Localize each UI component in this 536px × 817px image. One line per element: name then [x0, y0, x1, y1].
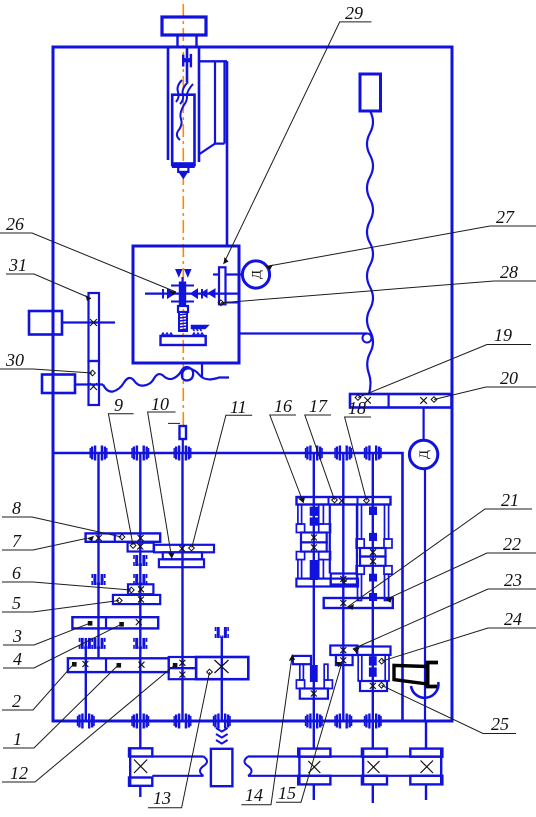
- gear 9: [128, 543, 154, 552]
- leader 31: [6, 274, 91, 299]
- worm gear B on shaft VII: [362, 749, 387, 785]
- leader 6: [2, 582, 131, 590]
- sleeve gear on shaft IV: [211, 749, 233, 786]
- leader 5: [2, 601, 119, 613]
- svg-text:24: 24: [504, 609, 522, 629]
- svg-text:19: 19: [494, 325, 512, 345]
- left gear bar (31): [89, 293, 100, 361]
- bearing on shaft II under gear 9: [134, 555, 147, 566]
- shaft Ib (x=85.8): [85, 638, 87, 721]
- svg-text:Д: Д: [249, 270, 264, 279]
- svg-text:29: 29: [345, 3, 363, 23]
- svg-text:25: 25: [491, 714, 509, 734]
- left spool walls upper: [296, 505, 330, 533]
- big gear 13: [196, 657, 248, 679]
- leader 20: [434, 387, 536, 400]
- output feed shaft segment 2: [248, 755, 442, 757]
- shaft VI (x=343.3): [342, 453, 344, 721]
- top right gear bar (19/20): [350, 394, 452, 408]
- central bevel gear cluster: [163, 282, 202, 306]
- bearing bottom wall shaft VI: [335, 714, 352, 729]
- bearing top wall shaft V: [306, 446, 323, 461]
- bearing top wall spindle: [174, 446, 191, 461]
- link from feed box to chain: [239, 332, 367, 334]
- clutch pair on horizontal shaft (right of bevel): [201, 289, 215, 298]
- double gear block 12 on spindle: [169, 657, 196, 668]
- gear bar 11 on spindle: [154, 545, 214, 553]
- centerline spindle axis (orange dash-dot): [182, 4, 184, 425]
- left spool bottom bar: [296, 579, 358, 587]
- leader 2: [2, 664, 74, 710]
- bearing bottom wall shaft VII: [365, 714, 382, 729]
- svg-text:6: 6: [12, 563, 21, 583]
- svg-text:18: 18: [348, 398, 366, 418]
- leader 3: [3, 623, 90, 645]
- spindle spline squiggle: [176, 80, 193, 106]
- wall down to feed box: [226, 61, 229, 246]
- leader 18: [345, 417, 371, 501]
- bearing bottom wall shaft IV: [214, 714, 231, 729]
- leader 12: [2, 665, 175, 782]
- coupling on spindle axis above gearbox: [180, 426, 187, 439]
- right spool walls lower: [356, 566, 392, 601]
- bearing shaft IV top: [216, 627, 229, 638]
- bearing top wall shaft VI: [335, 446, 352, 461]
- svg-text:8: 8: [12, 498, 21, 518]
- handwheel HW1: [242, 261, 269, 288]
- motor neck: [178, 35, 197, 47]
- drive motor shaft down: [424, 469, 426, 721]
- quill inner hook: [177, 105, 184, 140]
- svg-text:10: 10: [151, 394, 169, 414]
- svg-text:7: 7: [12, 531, 22, 551]
- svg-text:26: 26: [6, 214, 24, 234]
- lower-left spool block (shaft V) top bar 14: [293, 656, 311, 664]
- long gear bar 1/2: [68, 658, 169, 672]
- shaft break symbol left: [200, 757, 207, 776]
- wide bottom bar 21: [324, 598, 393, 608]
- svg-text:22: 22: [503, 534, 521, 554]
- spindle head housing walls: [167, 47, 170, 160]
- chain (wavy) to counterweight: [367, 111, 373, 394]
- lower-left spool gear: [300, 689, 328, 699]
- overload clutch on shaft IV: [216, 728, 228, 744]
- shaft I (x=98.5): [97, 453, 99, 659]
- shaft II (x=140.3): [139, 453, 141, 721]
- shaft II into worm gear: [139, 721, 141, 748]
- svg-text:28: 28: [500, 262, 518, 282]
- bearing bottom wall shaft Ib: [78, 714, 95, 729]
- bearing shaft II mid: [134, 574, 147, 585]
- leader 13: [148, 672, 210, 808]
- worm (hatched): [179, 312, 187, 331]
- bearing bottom wall shaft V: [306, 714, 323, 729]
- leader 8: [2, 517, 122, 537]
- lower-right spool walls: [358, 655, 389, 681]
- output feed shaft (drawn as band) segment 1: [152, 755, 203, 757]
- gear dogs shaft V lower: [310, 666, 317, 682]
- head side bracket: [199, 60, 227, 62]
- svg-text:27: 27: [496, 207, 515, 227]
- leader 15: [276, 662, 342, 802]
- sliding gear C on shaft VII: [360, 548, 386, 557]
- shaft V (x=313.8): [313, 453, 315, 721]
- belt coupling on spindle: [182, 55, 184, 67]
- svg-text:20: 20: [500, 368, 518, 388]
- leader 24: [382, 628, 536, 661]
- leader 25: [382, 685, 517, 733]
- gear dogs on shaft VII: [370, 507, 377, 600]
- shaft VII (x=372.8): [372, 453, 374, 721]
- sliding gear A on shaft V: [301, 533, 327, 543]
- shaft from R1: [62, 321, 115, 323]
- sliding gear D on shaft VII: [360, 557, 386, 566]
- feed gearbox top bar (16/17/18): [297, 497, 391, 505]
- shaft IV (x=221.8): [221, 637, 223, 721]
- bearing shaft II low: [134, 638, 147, 649]
- svg-text:17: 17: [309, 396, 328, 416]
- svg-text:31: 31: [8, 255, 27, 275]
- counterweight: [360, 74, 381, 111]
- leader 7: [2, 538, 87, 550]
- левая рукоятка rect R1: [29, 311, 62, 335]
- bearing top wall shaft VII: [365, 446, 382, 461]
- svg-text:5: 5: [12, 593, 21, 613]
- bearing top wall shaft II: [132, 446, 149, 461]
- chuck: [173, 163, 194, 167]
- bearing shaft I bottom: [92, 638, 105, 649]
- svg-text:16: 16: [274, 396, 292, 416]
- leader 21: [348, 509, 533, 607]
- lower-left spool walls: [296, 664, 332, 688]
- gear 5: [113, 595, 160, 604]
- leader 29: [224, 22, 372, 264]
- svg-text:1: 1: [13, 729, 22, 749]
- svg-text:12: 12: [10, 763, 28, 783]
- leader 23: [353, 589, 536, 649]
- leader 17: [305, 415, 335, 500]
- bearing shaft Ib top: [80, 638, 93, 649]
- gear 6: [128, 584, 153, 594]
- horizontal feed shaft in box: [145, 293, 238, 295]
- worm gear C on drive shaft: [410, 749, 442, 785]
- svg-text:30: 30: [5, 350, 24, 370]
- svg-text:9: 9: [114, 395, 123, 415]
- drive motor D: [409, 440, 437, 468]
- right spool walls upper: [356, 505, 392, 549]
- leader 22: [386, 553, 536, 600]
- leader 14: [241, 655, 292, 805]
- vertical gear bar on shaft of handwheel train: [219, 267, 226, 304]
- gear dogs shaft VII lower: [369, 657, 376, 677]
- sector arc: [411, 682, 438, 698]
- leader 11: [192, 415, 252, 547]
- drill tip: [179, 172, 188, 179]
- левая рукоятка rect R2: [42, 375, 75, 394]
- chain knot loop: [363, 334, 372, 343]
- svg-text:23: 23: [504, 570, 522, 590]
- leader 9: [108, 414, 133, 545]
- lower-right spool block (shaft VII) top bar: [357, 647, 391, 655]
- sliding gear B on shaft V: [301, 542, 327, 551]
- worm gear L on shaft II: [129, 748, 152, 786]
- small rack segment: [192, 326, 209, 332]
- bearing shaft I mid: [92, 574, 105, 585]
- spindle shaft III (x=182.5): [181, 453, 183, 721]
- upper bevel gear pair on spindle: [176, 270, 191, 277]
- arrowheads and dots: [169, 291, 176, 296]
- lower gearbox housing wall: [53, 453, 403, 721]
- svg-text:2: 2: [12, 691, 21, 711]
- lower-right spool gear 25: [360, 681, 387, 691]
- bearing top wall shaft I: [90, 446, 107, 461]
- gear dogs on shaft V: [310, 507, 317, 579]
- leader 19: [358, 345, 531, 398]
- leader 27: [266, 226, 536, 267]
- leader 10: [148, 412, 176, 559]
- stub from feed box to flexible shaft: [201, 363, 203, 378]
- worm collar: [178, 306, 188, 312]
- bearing bottom wall spindle: [174, 714, 191, 729]
- shaft break symbol right: [245, 757, 252, 776]
- leader 16: [270, 415, 304, 503]
- outer machine frame: [53, 47, 452, 721]
- svg-text:13: 13: [153, 788, 171, 808]
- gear bar 3/4: [72, 617, 158, 628]
- svg-text:15: 15: [278, 783, 296, 803]
- gear 23 on shaft VI: [330, 646, 357, 656]
- leader 1: [3, 665, 118, 748]
- bearing bottom wall shaft II: [132, 714, 149, 729]
- svg-text:21: 21: [501, 490, 519, 510]
- svg-text:4: 4: [13, 649, 22, 669]
- stepped gear 10: [163, 552, 202, 559]
- worm gear A on shaft V: [298, 749, 330, 785]
- spindle quill: [172, 95, 194, 165]
- shaft from bar down to drive motor: [423, 408, 425, 441]
- leader 26: [0, 233, 176, 292]
- leader 28: [221, 281, 536, 303]
- svg-text:3: 3: [12, 626, 22, 646]
- svg-text:Д: Д: [416, 450, 431, 459]
- middle gear on shaft VI: [331, 574, 357, 585]
- svg-text:11: 11: [230, 397, 247, 417]
- middle channel walls: [329, 505, 331, 574]
- worm wheel / rack bar: [161, 336, 206, 345]
- left spool walls lower: [296, 552, 330, 579]
- shaft from R2: [75, 383, 103, 385]
- gear bar 7/8 on shafts I,II: [86, 533, 161, 541]
- svg-text:14: 14: [245, 785, 263, 805]
- tool holder symbol (black): [394, 665, 427, 684]
- leader 4: [3, 624, 121, 668]
- gear 15 on shaft VI: [336, 655, 353, 665]
- leader 30: [0, 369, 92, 373]
- motor M1 (top pulley housing): [162, 17, 206, 35]
- flexible shaft (wavy): [103, 367, 229, 392]
- feed box housing: [133, 246, 239, 363]
